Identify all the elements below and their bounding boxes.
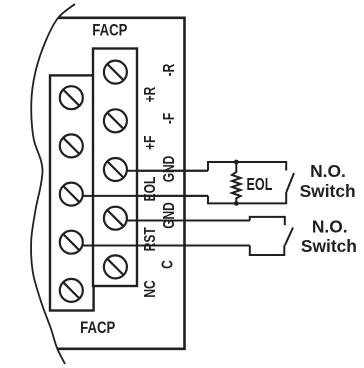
svg-text:N.O.: N.O. bbox=[310, 161, 346, 181]
svg-text:EOL: EOL bbox=[140, 176, 158, 201]
svg-text:FACP: FACP bbox=[80, 318, 115, 337]
svg-text:-F: -F bbox=[159, 113, 177, 125]
svg-text:NC: NC bbox=[140, 280, 158, 297]
svg-text:GND: GND bbox=[159, 202, 177, 229]
svg-text:EOL: EOL bbox=[247, 175, 273, 195]
svg-text:-R: -R bbox=[159, 64, 177, 77]
svg-text:Switch: Switch bbox=[300, 181, 356, 201]
svg-text:+F: +F bbox=[140, 135, 158, 150]
svg-text:RST: RST bbox=[140, 227, 158, 251]
svg-text:+R: +R bbox=[140, 87, 158, 103]
svg-text:N.O.: N.O. bbox=[312, 216, 348, 236]
svg-text:FACP: FACP bbox=[92, 21, 127, 40]
svg-text:Switch: Switch bbox=[301, 236, 357, 256]
svg-text:GND: GND bbox=[159, 156, 177, 183]
svg-text:C: C bbox=[158, 260, 176, 269]
